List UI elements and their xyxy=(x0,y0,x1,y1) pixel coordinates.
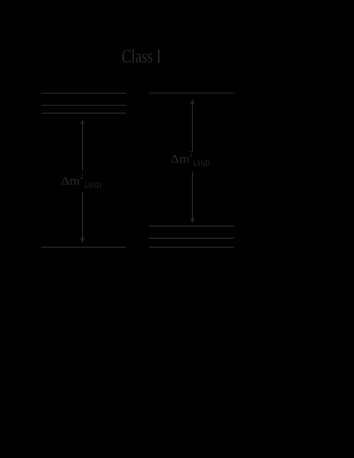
level line left-bottom single xyxy=(41,246,126,248)
level line right-bottom group line1 xyxy=(149,225,235,227)
level line left-top group line3 xyxy=(41,112,126,114)
level line right-bottom group line3 xyxy=(149,246,235,248)
level line nu3 left-top group line1 xyxy=(41,92,126,94)
svg-text:LSND: LSND xyxy=(84,181,101,190)
left arrow shaft upper segment xyxy=(82,123,84,171)
right arrow shaft upper segment xyxy=(191,103,193,151)
svg-text:2: 2 xyxy=(80,172,83,181)
left arrow shaft lower segment xyxy=(82,193,84,240)
level line right-top single xyxy=(149,92,235,94)
right arrow head up xyxy=(190,99,195,105)
right arrow head down xyxy=(190,218,195,224)
level line left-top group line2 xyxy=(41,104,126,106)
left arrow head up xyxy=(80,119,85,125)
svg-text:Δm: Δm xyxy=(61,173,81,187)
svg-text:LSND: LSND xyxy=(193,159,210,168)
level line right-bottom group line2 xyxy=(149,237,235,239)
svg-text:Δm: Δm xyxy=(171,151,191,165)
right arrow shaft lower segment xyxy=(191,172,193,220)
svg-text:Class I: Class I xyxy=(122,46,162,67)
svg-text:2: 2 xyxy=(189,150,192,159)
left arrow head down xyxy=(80,237,85,243)
